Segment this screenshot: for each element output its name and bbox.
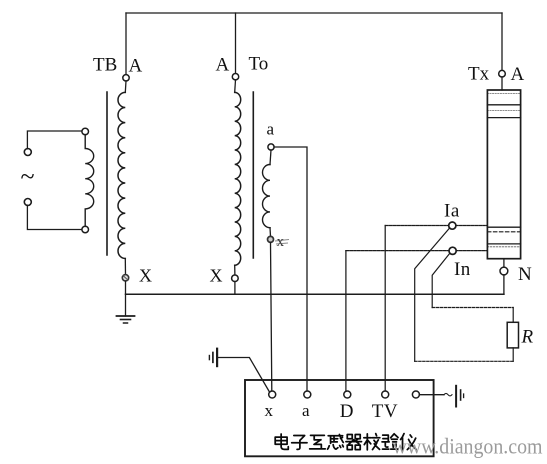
transformer TB core [106,92,108,255]
wire D vertical [345,251,347,391]
wire In switch arm to R loop [432,253,450,307]
svg-text:R: R [521,327,534,348]
node a terminal of To secondary [268,144,274,150]
node box terminal x [269,391,276,398]
电 [275,434,288,449]
node X terminal of To [232,275,239,282]
right earth electrode [455,386,457,407]
node box terminal a [304,391,311,398]
wire left earth to box x [218,358,269,393]
wire N to bus [503,275,505,294]
node A terminal of TB [123,75,129,81]
wire box right terminal to earth [419,394,444,396]
svg-text:a: a [267,120,275,139]
wire To secondary x down to box x terminal [271,242,272,391]
wire To coil to X [234,265,236,275]
AC source terminals [24,149,31,156]
wire Tx A drop [501,13,503,70]
wire To A to coil [234,80,237,93]
验 [382,434,398,449]
wire Ia tap [385,225,487,227]
svg-text:N: N [518,264,532,285]
wire To A drop [235,13,237,74]
svg-text:A: A [129,56,143,77]
wire a to box a terminal [274,147,307,391]
wire coil to x terminal of To secondary [269,228,272,237]
node A terminal of To [232,74,238,80]
node box terminal TV [382,391,389,398]
wire a to secondary coil [270,150,271,165]
ground [117,315,135,317]
svg-text:X: X [210,266,223,286]
node box terminal D [344,391,351,398]
svg-text:D: D [340,401,354,422]
svg-text:Tx: Tx [468,64,490,85]
left earth electrode [216,349,218,366]
svg-text:A: A [511,64,525,85]
transformer To primary winding [235,92,241,265]
node In terminal [449,247,456,254]
wire Ia switch arm to R loop [415,228,450,361]
transformer Tx body [499,70,506,77]
resistor R [507,322,518,348]
node bottom of exciting winding [82,226,89,233]
wire source bottom [27,205,82,229]
仪 [401,434,417,450]
svg-text:To: To [249,54,269,75]
svg-text:x: x [277,234,285,250]
svg-text:TB: TB [93,55,117,76]
svg-text:www.diangon.com: www.diangon.com [393,434,543,459]
wire In tap [346,250,488,252]
校 [364,434,380,450]
svg-text:A: A [216,55,230,76]
label 电子互感器校验仪 (calibrator title) [275,434,416,450]
wire source top [27,131,82,149]
node top of exciting winding [82,128,89,135]
wire TB X down to ground [125,281,127,316]
器 [346,434,362,449]
svg-text:TV: TV [372,401,398,422]
wire TB A to coil [124,81,127,92]
TB exciting winding [85,135,94,227]
node N terminal [500,267,508,275]
transformer TB HV winding [118,92,125,258]
box calibrator outline [245,380,434,456]
wire TB coil to X [124,259,126,275]
svg-text:X: X [139,266,152,286]
svg-text:x: x [265,401,274,420]
svg-text:In: In [454,259,471,280]
wire ground bus [126,293,504,295]
node X terminal of TB [122,275,128,281]
svg-text:a: a [302,401,310,420]
子 [292,436,307,450]
wire TV vertical [384,226,386,392]
wire To X to bus [234,281,236,294]
transformer To secondary winding [262,165,270,228]
svg-text:Ia: Ia [444,201,460,222]
wire Tx bottom to N [503,259,505,267]
wire top rail [126,12,502,14]
node Ia terminal [449,222,456,229]
感 [328,434,344,449]
node x terminal of To secondary [268,236,274,242]
node box terminal right [412,391,419,398]
wire TB A drop [125,13,127,75]
transformer To core [252,92,254,258]
互 [310,435,326,449]
svg-text:~: ~ [21,162,35,191]
